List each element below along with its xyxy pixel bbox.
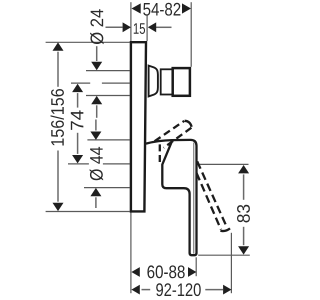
knob (handle grip cylinder)	[173, 68, 190, 96]
wire: extension line knob front (x=190.5) for dim 54-82	[190, 2, 192, 67]
dashed lever up position edge B	[164, 128, 192, 148]
dashed lever up tip cap	[185, 121, 192, 127]
cartridge cone escutcheon	[149, 66, 158, 97]
dashed lever down-right position edge 2	[197, 173, 221, 230]
dimension 54-82 top	[132, 3, 141, 13]
wire: extension line lever tip (x=195.7) for dim 60-88	[195, 257, 197, 276]
wire: extension line wall/plate-back top (x=130.9)	[130, 2, 132, 41]
wire: extension line lever bottom right (y=255.4) for dim 83	[198, 254, 250, 256]
handle hub + lever blade (solid outline)	[147, 140, 197, 255]
wire: extension line hub top right (y=164.4) for dim 83	[198, 163, 248, 165]
dimension Ø44	[95, 120, 97, 131]
wire: hub centerline (y=163.9)	[68, 163, 89, 165]
dashed lever down-right position edge 1	[197, 161, 227, 227]
dimension 60-88 bottom	[131, 267, 139, 277]
dimension 156/156	[53, 42, 64, 50]
wire: extension line knob top (y=70.6) for dim Ø24	[86, 70, 130, 72]
dimension Ø24	[90, 9, 104, 44]
wire: extension line knob bottom (y=95.5) for dim Ø24	[86, 95, 130, 97]
dimension 74	[72, 84, 83, 92]
dashed lever hub edge vertical	[159, 144, 161, 162]
collar sleeve	[161, 69, 173, 94]
escutcheon plate (side view)	[131, 42, 146, 211]
dashed lever down-right tip cap	[220, 228, 230, 231]
dimension 83	[238, 165, 249, 173]
wire: extension line hub top (y=139.9) for dim Ø44	[87, 139, 129, 141]
lever blade inner edge (gray)	[193, 143, 195, 254]
wire: extension line plate bottom (y=211.5)	[46, 211, 130, 213]
wire: extension line dashed-lever tip (x=231.4) for dim 92-120	[230, 233, 232, 293]
dimension 15	[106, 26, 123, 28]
dashed lever up position edge A	[155, 121, 185, 141]
wire: extension line wall/plate-back bottom (x=130.9)	[130, 212, 132, 293]
wire: extension line plate top (y=42.3)	[46, 41, 130, 43]
wire: cartridge centerline (y=83.1)	[71, 82, 90, 84]
wire: extension line hub bottom (y=187.6) for dim Ø44	[84, 187, 130, 189]
wire: extension line plate front (x=146.9) for dim 15	[146, 15, 148, 41]
dimension 92-120 bottom	[131, 285, 139, 295]
